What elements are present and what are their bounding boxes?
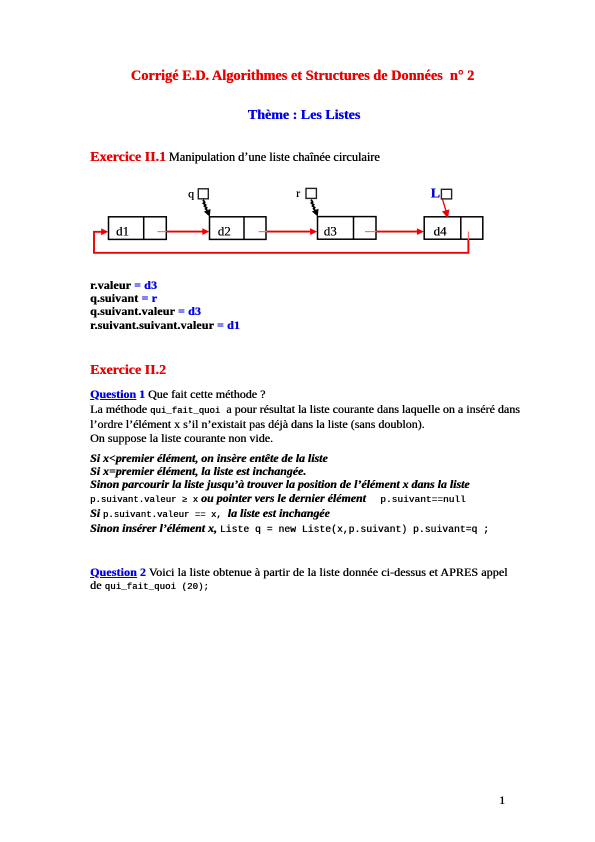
svg-text:d1: d1: [116, 224, 129, 239]
svg-text:d3: d3: [324, 224, 337, 239]
svg-text:L: L: [431, 187, 440, 202]
svg-text:d4: d4: [434, 224, 448, 239]
svg-text:d2: d2: [218, 224, 231, 239]
svg-text:r: r: [296, 186, 300, 200]
svg-text:q: q: [188, 187, 194, 201]
